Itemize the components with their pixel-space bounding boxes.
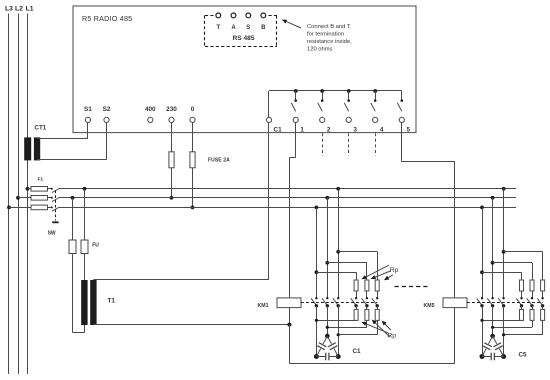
wire S2 to CT1 secondary bottom [106,123,108,160]
wire KM1 phase1 drop [316,207,318,298]
terminal 2 [320,117,325,122]
junction 230/mid bus [170,196,174,200]
Rp arrow bottom 3 [384,323,390,330]
capacitor bank C1 delta [325,334,330,339]
wire fuse to switch SW [48,188,52,190]
contactor coil KM5 [443,298,467,308]
wire KM1 tap to resistor Rp [327,262,367,264]
wire Rp discharge link [356,319,358,321]
junction top bus / KM1 phase3 [336,187,340,191]
fuse F1 phase 2 [31,196,48,201]
terminal 3 [346,117,351,122]
wire KM5 phase3 to capacitor [503,306,505,357]
junction KM5 discharge link [502,333,505,336]
contactor KM5 contact [481,297,483,299]
contactor KM1 contact [326,297,328,299]
junction bus/contact 4 [373,89,377,93]
svg-text:0: 0 [191,106,195,113]
svg-text:L3: L3 [5,6,13,13]
svg-text:L2: L2 [15,6,23,13]
capacitor bank C5 delta [490,334,495,339]
wire L3 feeder [8,14,10,375]
junction top bus / KM5 phase3 [502,187,506,191]
resistor Rp (inrush, KM5) [520,280,524,291]
contactor KM1 contact [337,297,339,299]
junction mid bus / KM5 phase2 [491,196,495,200]
contactor coil KM1 [277,298,301,308]
wire fuse to switch SW [48,197,52,199]
junction mid bus / FU left [71,196,75,200]
junction top bus / FU right [83,187,87,191]
svg-text:S: S [246,25,250,31]
junction KM1 discharge link [315,319,318,322]
wire 230 down [171,123,173,152]
dashed continuation (banks 2..4 not shown) [395,286,428,288]
Rp arrow top 1 [365,265,389,277]
svg-text:2: 2 [327,126,331,133]
svg-text:Connect B and T: Connect B and T [307,24,351,30]
T1 secondary bar [90,280,96,325]
junction bus/contact 2 [320,89,324,93]
Rp arrow top 2 [374,271,390,278]
junction KM1 discharge link [337,333,340,336]
resistor Rp (inrush, KM1) [375,280,379,291]
svg-text:1: 1 [300,126,304,133]
Rp arrow bottom 2 [375,322,390,337]
wire KM5 phase3 drop [503,189,505,298]
terminal 0 [190,117,195,122]
wire KM5 phase1 drop [482,207,484,298]
internal common bus wire [269,90,402,92]
wire KM5 coil to neutral [454,308,456,364]
switch SW pole 3 [51,206,53,208]
svg-text:S2: S2 [103,106,111,113]
wire fuse to switch SW [48,207,52,209]
T1 primary bar [81,280,87,325]
junction KM5 phase tap [491,261,495,265]
junction mid bus / KM1 phase2 [325,196,329,200]
svg-text:SW: SW [48,231,56,237]
wire Rp to contact [542,291,544,298]
svg-text:F1: F1 [38,176,44,182]
wire L1 feeder [27,14,29,375]
wire KM1 phase2 drop [327,198,329,298]
junction KM1 coil / neutral [287,323,291,327]
junction KM1 phase tap [315,270,319,274]
relay contact K5 [401,91,403,100]
wire Rp discharge link [377,320,379,334]
wire bus to terminal C1 [268,91,270,117]
resistor Rp (discharge, KM1) [377,306,379,310]
relay contact K4 [375,91,377,100]
fuse FU left [69,240,76,254]
svg-text:KM1: KM1 [258,303,269,309]
contactor KM1 contact [315,297,317,299]
Rp arrow bottom 1 [365,323,388,333]
junction L3 tap [7,206,11,210]
svg-text:C5: C5 [519,352,528,359]
wire Rp to contact [377,291,379,298]
wire Rp discharge link [521,319,523,321]
svg-text:RS 485: RS 485 [233,35,255,42]
wire dashed continuation below terminal 2 [322,133,324,156]
wire T1 secondary top to C1 terminal [93,279,269,281]
terminal T [216,13,221,18]
wire KM5 phase2 drop [492,198,494,298]
terminal 230 [169,117,174,122]
resistor Rp (discharge, KM1) [356,306,358,310]
wire 0 down [192,123,194,152]
svg-text:L1: L1 [26,6,34,13]
KM5 actuation dashed link [467,302,543,304]
junction bus/contact 3 [347,89,351,93]
SW mechanical link dashed [55,191,57,221]
contactor KM1 contact [355,297,357,299]
terminal S2 [104,117,109,122]
wire Rp to contact [521,291,523,298]
terminal 400 [148,117,153,122]
terminal S1 [85,117,90,122]
terminal A [231,13,236,18]
fuse 2A (230) [169,152,174,168]
contactor KM5 contact [520,297,522,299]
svg-text:CT1: CT1 [35,125,47,132]
resistor Rp (inrush, KM1) [354,280,358,291]
wire KM1 phase3 drop [338,189,340,298]
capacitor C1 phase1-2 [323,336,327,344]
fuse F1 phase 3 [31,205,48,210]
junction 0/bottom bus [191,206,195,210]
switch SW pole 1 [51,188,53,190]
svg-text:T1: T1 [108,298,116,305]
svg-text:R5 RADIO 485: R5 RADIO 485 [82,14,132,23]
wire FU left down [72,198,74,240]
contactor KM5 contact [491,297,493,299]
wire dashed continuation below terminal 3 [348,133,350,156]
contactor KM5 contact [541,297,543,299]
fuse F1 phase 1 [31,187,48,192]
relay contact K2 [322,91,324,100]
junction KM1 discharge link [326,326,329,329]
svg-text:5: 5 [407,126,411,133]
wire L2 tap to fuse F1 [18,197,31,199]
svg-text:400: 400 [145,106,156,113]
junction KM5 phase tap [502,250,506,254]
terminal S [246,13,251,18]
contactor KM5 contact [531,297,533,299]
bus wire phase 2 [58,197,516,199]
contactor KM1 contact [366,297,368,299]
resistor Rp (discharge, KM5) [532,306,534,310]
KM1 actuation dashed link [301,302,377,304]
svg-text:C1: C1 [353,348,362,355]
svg-text:resistance inside,: resistance inside, [307,39,352,45]
wire Rp to contact [356,291,358,298]
wire KM5 phase2 to capacitor [492,306,494,336]
svg-text:C1: C1 [274,126,283,133]
terminal 1 [293,117,298,122]
resistor Rp (inrush, KM5) [541,280,545,291]
junction KM5 phase tap [480,270,484,274]
resistor Rp (inrush, KM1) [365,280,369,291]
bus wire phase 3 [58,207,516,209]
wire FU right to T1 primary [84,254,86,281]
wire control neutral bottom run [289,363,455,365]
controller R5 RADIO 485 enclosure [73,6,416,133]
capacitor C5 phase2-3 [493,336,497,344]
wire KM5 tap to resistor Rp [493,262,532,264]
terminal C1 [266,117,271,122]
terminal 5 [399,117,404,122]
capacitor C5 phase1-3 [482,356,491,358]
wire FU right down [84,189,86,240]
svg-text:Rp: Rp [390,267,399,274]
annotation arrow to RS485 box corner [286,21,302,28]
contactor KM5 contact [502,297,504,299]
svg-text:FUSE 2A: FUSE 2A [208,157,230,163]
capacitor C5 phase1-2 [489,336,493,344]
wire control neutral down [289,325,291,364]
wire terminal 1 to KM1 coil [295,123,297,158]
wire S1 to CT1 secondary top [87,123,89,139]
resistor Rp (discharge, KM5) [521,306,523,310]
svg-text:4: 4 [380,126,384,133]
terminal 4 [373,117,378,122]
svg-text:230: 230 [166,106,177,113]
junction KM1 phase tap [325,261,329,265]
capacitor C1 phase2-3 [327,336,331,344]
svg-text:B: B [261,25,266,31]
wire Rp to contact [532,291,534,298]
wire KM1 tap to resistor Rp [338,251,377,253]
wire L2 feeder [18,14,20,375]
capacitor C1 phase1-3 [316,356,325,358]
relay contact K3 [348,91,350,100]
junction bus/contact 1 [294,89,298,93]
Rp arrow top 3 [387,275,393,278]
junction L1 tap [26,187,30,191]
SW link end bar [52,221,58,223]
wire dashed continuation below terminal 4 [375,133,377,156]
relay contact K1 [295,91,297,100]
switch SW pole 2 [51,197,53,199]
wire KM1 phase3 to capacitor [338,306,340,357]
wire terminal 5 to KM5 coil [401,123,403,162]
junction KM1 phase tap [336,250,340,254]
CT1 primary bar [24,137,31,160]
wire KM1 phase2 to capacitor [327,306,329,336]
bus wire phase 1 [58,188,516,190]
wire fuse to mid bus [171,168,173,198]
wire KM5 tap to resistor Rp [504,251,543,253]
junction bottom bus / KM5 phase1 [480,206,484,210]
wire FU left to T1 loop [72,254,74,333]
svg-text:A: A [231,25,236,31]
CT1 secondary bar [34,137,40,160]
svg-text:FU: FU [92,243,99,249]
svg-text:3: 3 [353,126,357,133]
RS 485 module dashed box [205,15,214,17]
junction L2 tap [16,196,20,200]
svg-text:T: T [216,25,220,31]
wire KM1 phase1 to capacitor [316,306,318,357]
svg-text:for termination: for termination [307,32,344,38]
contactor KM1 contact [376,297,378,299]
svg-text:120 ohms: 120 ohms [307,47,333,53]
resistor Rp (discharge, KM1) [366,306,368,310]
fuse 2A (0) [190,152,195,168]
junction KM5 discharge link [480,319,483,322]
wire KM5 tap to resistor Rp [482,272,522,274]
wire L1 tap to fuse F1 [28,188,32,190]
junction bottom bus / KM1 phase1 [315,206,319,210]
wire fuse to bottom bus [192,168,194,208]
junction KM5 discharge link [491,326,494,329]
wire T1 secondary bottom control neutral [93,324,289,326]
fuse FU right [81,240,88,254]
wire KM1 tap to resistor Rp [316,272,356,274]
resistor Rp (inrush, KM5) [530,280,534,291]
wire Rp discharge link [532,320,534,327]
wire Rp to contact [366,291,368,298]
wire KM1 coil to control neutral [289,308,291,325]
terminal B [261,13,266,18]
wire Rp discharge link [542,320,544,334]
wire Rp discharge link [366,320,368,327]
svg-text:S1: S1 [84,106,92,113]
wire KM5 phase1 to capacitor [482,306,484,357]
resistor Rp (discharge, KM5) [542,306,544,310]
wire L3 tap to fuse F1 [9,207,31,209]
svg-text:KM5: KM5 [424,303,435,309]
